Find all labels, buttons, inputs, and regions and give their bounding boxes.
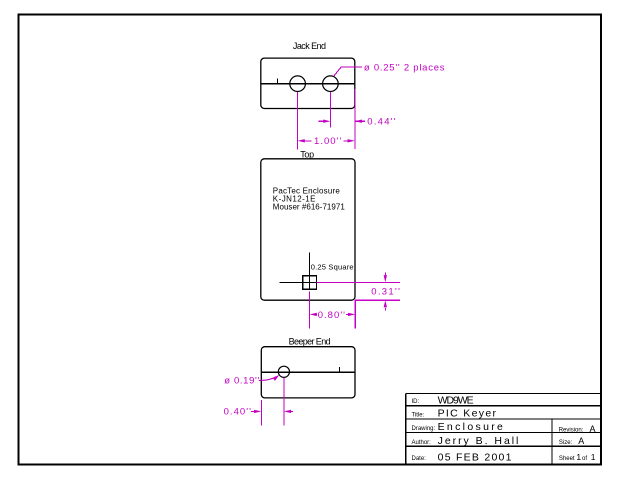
- square hole: [303, 276, 317, 289]
- svg-text:Drawing:: Drawing:: [412, 426, 436, 432]
- svg-text:Author:: Author:: [412, 440, 432, 446]
- svg-text:of: of: [582, 456, 587, 462]
- extension line right hole: [329, 92, 331, 128]
- dimension 0.31 arrows: [384, 275, 387, 307]
- extension line box right vertical: [354, 300, 356, 329]
- jack hole left: [290, 76, 306, 92]
- svg-text:ø 0.25'' 2 places: ø 0.25'' 2 places: [364, 62, 445, 73]
- dimension 0.44 line: [319, 120, 366, 122]
- square hole horizontal center line: [280, 281, 317, 283]
- dimension 0.80 line: [316, 313, 350, 315]
- svg-text:ID:: ID:: [412, 399, 420, 405]
- dimension 1.00 line: [303, 140, 349, 142]
- dimension 0.31 arrow lines: [384, 273, 386, 311]
- svg-text:0.44'': 0.44'': [367, 117, 395, 128]
- svg-text:Date:: Date:: [412, 456, 427, 462]
- svg-text:Title:: Title:: [412, 412, 425, 418]
- svg-text:Jack End: Jack End: [293, 41, 326, 51]
- svg-text:PIC Keyer: PIC Keyer: [438, 408, 497, 420]
- svg-text:Enclosure: Enclosure: [438, 421, 503, 433]
- leader to beeper hole note: [259, 377, 277, 381]
- square hole vertical center line: [309, 253, 311, 290]
- svg-text:1.00'': 1.00'': [314, 136, 341, 147]
- svg-text:A: A: [578, 436, 584, 446]
- svg-text:Revision:: Revision:: [559, 427, 584, 433]
- svg-text:1: 1: [591, 452, 596, 462]
- svg-text:0.31'': 0.31'': [371, 287, 400, 298]
- svg-text:05 FEB 2001: 05 FEB 2001: [438, 451, 512, 463]
- extension line box bottom level: [355, 299, 400, 301]
- extension line square center level: [317, 281, 401, 283]
- svg-text:WD9WE: WD9WE: [438, 394, 474, 406]
- extension line right edge: [354, 89, 356, 149]
- extension line left hole: [297, 92, 299, 150]
- title block outline: [406, 393, 601, 464]
- Beeper End center line: [261, 371, 355, 373]
- svg-text:ø 0.19'': ø 0.19'': [224, 375, 259, 386]
- svg-text:Size:: Size:: [559, 440, 573, 446]
- svg-text:Mouser #616-71971: Mouser #616-71971: [273, 203, 346, 212]
- extension line beeper hole center: [283, 378, 285, 426]
- leader to jack holes note: [334, 67, 362, 76]
- svg-text:0.80'': 0.80'': [318, 310, 345, 321]
- svg-text:A: A: [590, 424, 596, 434]
- Jack End center line: [261, 83, 355, 85]
- beeper leader arrow: [273, 375, 280, 381]
- dimension 0.44 arrows: [323, 120, 362, 123]
- svg-text:Jerry B. Hall: Jerry B. Hall: [438, 435, 519, 447]
- Jack End center line tick: [277, 79, 279, 84]
- Jack End enclosure outline: [261, 58, 355, 108]
- dimension 0.40 line: [251, 410, 293, 412]
- Top enclosure outline: [261, 159, 355, 300]
- extension line square center vertical: [309, 292, 311, 329]
- jack hole right: [323, 76, 339, 92]
- dimension 1.00 arrows: [298, 139, 355, 142]
- svg-text:Top: Top: [300, 150, 314, 160]
- Beeper End center line tick: [338, 367, 340, 372]
- extension line beeper left edge: [260, 400, 262, 426]
- Beeper End enclosure outline: [261, 347, 355, 398]
- svg-text:0.40'': 0.40'': [224, 407, 251, 418]
- svg-text:Sheet: Sheet: [559, 456, 575, 462]
- svg-text:0.25 Square: 0.25 Square: [311, 263, 354, 272]
- dimension 0.40 arrows: [254, 410, 291, 413]
- dimension 0.80 arrows: [310, 313, 356, 316]
- beeper hole: [278, 366, 289, 377]
- svg-text:Beeper End: Beeper End: [289, 336, 331, 346]
- svg-text:1: 1: [576, 452, 581, 462]
